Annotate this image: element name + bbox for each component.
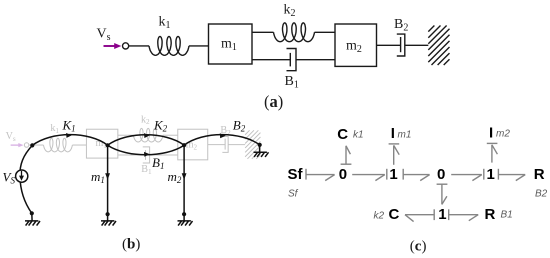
wire curve node A down through source Vs [20, 145, 32, 221]
svg-text:0: 0 [437, 166, 445, 183]
damper B2 cylinder [397, 34, 405, 56]
bond 1 to 0 half-arrow [420, 175, 429, 181]
node m2 junction dot [182, 143, 186, 147]
svg-text:B1: B1 [501, 210, 513, 221]
svg-text:I: I [489, 125, 493, 142]
bond 0 down to 1 wire [441, 184, 443, 204]
svg-text:m2: m2 [168, 169, 182, 185]
svg-text:1: 1 [487, 166, 495, 183]
bond 1 to I m2 causal stroke at I [487, 142, 498, 144]
bond 1 to C k2 half-arrow [405, 215, 414, 222]
svg-text:(a): (a) [264, 92, 283, 111]
wire circle to k1 [129, 45, 149, 47]
svg-text:m2: m2 [496, 129, 510, 140]
source Vs arrow inside [21, 171, 23, 177]
wire m2 branch down [183, 145, 185, 221]
wire curve m2 to wall ground (through B2) [184, 135, 260, 146]
bond Sf to 0 wire [306, 174, 335, 176]
svg-text:C: C [337, 126, 348, 143]
bond Sf to 0 half-arrow [325, 175, 334, 181]
svg-text:k2: k2 [374, 211, 385, 222]
bond 0 to 1 wire [352, 174, 385, 176]
bond 0 down to 1 causal stroke at 0 [437, 183, 448, 185]
svg-text:k1: k1 [159, 15, 171, 32]
svg-text:B1: B1 [141, 164, 152, 176]
wire k1 to m1 [189, 45, 209, 47]
svg-text:m2: m2 [186, 140, 198, 152]
svg-text:m1: m1 [91, 169, 105, 185]
bond 0 to 1 causal stroke at 1 [386, 169, 388, 180]
bond 1 to C k2 wire [405, 214, 434, 216]
wire lower curve m1 to m2 (through B1) [108, 145, 185, 155]
spring k1 [149, 37, 189, 56]
wire B1 to m2 [296, 59, 335, 61]
svg-text:k2: k2 [284, 3, 296, 20]
svg-text:m2: m2 [346, 39, 362, 56]
bond 1 to I m1 half-arrow [394, 145, 400, 154]
flow arrow m2 down [182, 173, 187, 180]
wire stub to wall ground [259, 145, 261, 152]
bond 1 to I m1 wire [393, 145, 395, 164]
svg-text:I: I [391, 125, 395, 142]
svg-text:B2: B2 [535, 189, 548, 200]
faded wire B2 to wall [228, 144, 245, 146]
bond 1 to R B1 half-arrow [469, 215, 478, 221]
node A (input junction dot) [30, 143, 34, 147]
bond 0 to C wire [345, 146, 347, 164]
svg-text:k2: k2 [141, 114, 150, 126]
bond 1 to R B1 wire [449, 214, 479, 216]
svg-text:1: 1 [438, 206, 446, 223]
bond 1 to R B2 half-arrow [516, 175, 525, 181]
svg-text:1: 1 [389, 166, 397, 183]
faded wall hatching [245, 130, 260, 159]
faded wire B1 to m2 [150, 154, 178, 156]
faded wire k2 to m2 [163, 134, 178, 136]
svg-text:(b): (b) [122, 237, 140, 253]
node m1 ground dot [106, 212, 110, 216]
faded wire k1 to m1 [72, 144, 86, 146]
svg-text:k1: k1 [50, 123, 59, 135]
faded wire m2 to B2 rod [208, 144, 225, 146]
bond 1 to R B2 causal stroke at 1 [497, 169, 499, 180]
wire curve Vs node to m1 node [32, 135, 107, 146]
faded damper B1 cylinder [143, 147, 150, 163]
bond 1 to I m2 half-arrow [492, 145, 498, 154]
node m2 ground dot [182, 212, 186, 216]
svg-text:m1: m1 [221, 37, 237, 54]
damper B1 cylinder [287, 49, 297, 71]
faded mass m2 box [178, 129, 208, 160]
faded input node circle [24, 143, 28, 147]
bond 1 to 0 wire [403, 174, 429, 176]
svg-text:R: R [534, 166, 545, 183]
flow arrow B2 [220, 133, 226, 138]
wire m1 to B1 rod [252, 59, 290, 61]
svg-text:m1: m1 [398, 130, 412, 141]
bond 0 to 1 (third) wire [451, 174, 482, 176]
svg-text:K1: K1 [62, 117, 76, 133]
bond 0 to 1 half-arrow [375, 175, 384, 181]
source Vs circle [16, 170, 28, 182]
damper B1 piston plate [289, 53, 291, 67]
svg-text:Sf: Sf [288, 166, 304, 183]
bond 0 down to 1 half-arrow [442, 196, 447, 204]
svg-text:B1: B1 [152, 155, 164, 171]
bond 0 to 1 (third) half-arrow [472, 175, 481, 181]
faded mass m1 box [86, 129, 117, 158]
faded damper B2 piston plate [224, 139, 226, 150]
faded wire m1 to k2 [118, 134, 134, 136]
bond 1 to I m1 causal stroke at I [389, 143, 400, 145]
wire B2 to wall [405, 44, 429, 46]
faded wire circle to k1 [29, 144, 44, 146]
svg-text:B2: B2 [233, 118, 246, 134]
flow arrow K2 [144, 133, 150, 138]
svg-text:Vs: Vs [97, 27, 111, 44]
bond 1 to C k2 causal stroke at 1 [433, 209, 435, 220]
input node circle [123, 43, 129, 49]
svg-text:K2: K2 [153, 117, 168, 133]
ground under m1 [101, 221, 116, 226]
wire m2 to B2 rod [377, 44, 401, 46]
svg-text:B2: B2 [394, 17, 408, 34]
flow arrow m1 down [105, 173, 110, 180]
wire m1 branch down [107, 145, 109, 221]
input arrow Vs [104, 43, 122, 49]
svg-text:(c): (c) [410, 238, 427, 254]
bond 1 to I m2 wire [491, 145, 493, 163]
faded damper B2 cylinder [222, 137, 228, 153]
faded spring k1 [43, 138, 72, 152]
wall hatching [428, 26, 449, 66]
svg-text:Vs: Vs [6, 131, 16, 143]
svg-text:B1: B1 [285, 74, 299, 91]
faded wire m1 to B1 rod [118, 154, 146, 156]
bond Sf to 0, causal stroke at Sf [305, 169, 307, 180]
faded input arrow Vs [11, 143, 24, 147]
wire upper curve m1 to m2 (through K2) [108, 135, 185, 145]
bond 1 to R B2 wire [498, 174, 525, 176]
mass m2 box [335, 24, 377, 66]
node wall end dot [258, 143, 262, 147]
bond 1 to 0 causal stroke at 1 [402, 169, 404, 180]
bond 0 to C causal stroke at 0 [341, 163, 352, 165]
node m1 junction dot [106, 143, 110, 147]
damper B2 piston plate [400, 37, 402, 52]
wire m1 to k2 [252, 31, 274, 33]
svg-text:Sf: Sf [288, 189, 299, 200]
node Vs ground dot [30, 211, 34, 215]
faded damper B1 piston plate [144, 150, 146, 160]
mass m1 box [209, 24, 253, 64]
bond 1 to R B1 causal stroke at 1 [448, 209, 450, 220]
svg-text:C: C [389, 206, 400, 223]
flow arrow K1 [66, 133, 72, 138]
svg-text:R: R [485, 206, 496, 223]
bond 0 to 1 (third) causal stroke at 1 [483, 169, 485, 180]
spring k2 [274, 23, 315, 42]
svg-text:VS: VS [3, 170, 16, 186]
wire k2 to m2 [315, 31, 336, 33]
ground under m2 [178, 221, 193, 226]
flow arrow B1 [144, 152, 150, 157]
ground under Vs [25, 221, 40, 226]
svg-text:k1: k1 [353, 130, 364, 141]
ground at wall end [254, 152, 269, 157]
faded spring k2 [133, 128, 163, 142]
svg-text:0: 0 [339, 166, 347, 183]
bond 0 to C half-arrow [346, 146, 350, 154]
